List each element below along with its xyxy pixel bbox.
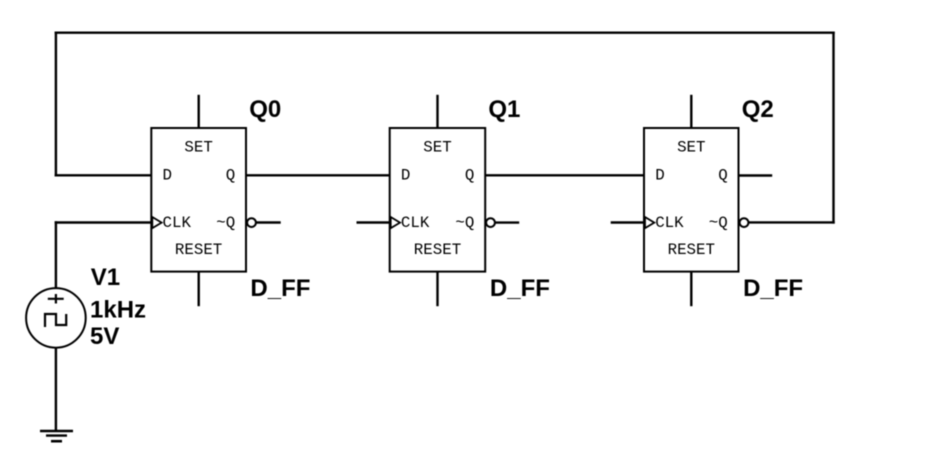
part label D_FF U3 [743, 275, 803, 302]
svg-text:RESET: RESET [175, 241, 222, 259]
wire CLK vertical from V1 [55, 223, 57, 289]
svg-text:D: D [655, 166, 664, 184]
wire SET stub FF3 [690, 96, 692, 128]
ground symbol [40, 431, 73, 441]
svg-text:D_FF: D_FF [250, 275, 310, 302]
pin label SET U1 [184, 139, 212, 157]
pin label RESET U3 [668, 241, 715, 259]
svg-text:D_FF: D_FF [490, 275, 550, 302]
wire feedback right vertical [832, 33, 834, 223]
svg-text:Q0: Q0 [249, 96, 281, 123]
clock triangle U2 CLK pin [391, 217, 400, 228]
clock triangle U3 CLK pin [645, 217, 654, 228]
pin label CLK U3 [655, 214, 684, 232]
wire Q0: FF1 Q to FF2 D [246, 174, 390, 176]
svg-text:SET: SET [423, 139, 451, 157]
svg-text:Q1: Q1 [488, 96, 520, 123]
wire SET stub FF2 [436, 96, 438, 128]
pin label D U3 [655, 166, 664, 184]
svg-text:~Q: ~Q [709, 214, 728, 232]
svg-text:CLK: CLK [401, 214, 430, 232]
label V1 [91, 264, 120, 291]
pin label Q U1 [226, 166, 235, 184]
wire feedback top horizontal [56, 32, 834, 34]
wire Q2 stub from FF3 Q [739, 174, 772, 176]
pin label RESET U1 [175, 241, 222, 259]
node label Q2 [742, 96, 774, 123]
wire RESET stub FF1 [197, 272, 199, 305]
pin label SET U3 [677, 139, 705, 157]
voltage source V1 circle [26, 288, 86, 348]
svg-text:RESET: RESET [414, 241, 461, 259]
svg-text:Q: Q [718, 166, 727, 184]
svg-text:D_FF: D_FF [743, 275, 803, 302]
flip-flop U2 D_FF box [390, 128, 486, 272]
svg-text:D: D [401, 166, 410, 184]
pin label Q U3 [718, 166, 727, 184]
pin label ~Q U1 [216, 214, 235, 232]
wire CLK horizontal to FF1 [56, 221, 151, 223]
pin label ~Q U2 [455, 214, 474, 232]
pin label D U1 [163, 166, 172, 184]
pin label SET U2 [423, 139, 451, 157]
pin label D U2 [401, 166, 410, 184]
pin label RESET U2 [414, 241, 461, 259]
svg-text:RESET: RESET [668, 241, 715, 259]
wire ~Q FF3 to feedback [749, 221, 833, 223]
svg-text:~Q: ~Q [216, 214, 235, 232]
wire V1 to ground [55, 347, 57, 430]
svg-text:Q2: Q2 [742, 96, 774, 123]
node label Q1 [488, 96, 520, 123]
wire RESET stub FF2 [436, 272, 438, 305]
wire stub CLK FF2 [358, 221, 390, 223]
pin label CLK U1 [163, 214, 192, 232]
svg-text:CLK: CLK [655, 214, 684, 232]
svg-text:SET: SET [677, 139, 705, 157]
part label D_FF U1 [250, 275, 310, 302]
wire SET stub FF1 [197, 96, 199, 128]
inversion bubble U3 ~Q [740, 218, 749, 227]
node label Q0 [249, 96, 281, 123]
voltage source V1 plus sign [48, 294, 64, 304]
wire stub ~Q FF2 [495, 221, 518, 223]
svg-text:V1: V1 [91, 264, 120, 291]
svg-text:1kHz: 1kHz [90, 297, 146, 324]
wire D input FF1 [56, 174, 151, 176]
inversion bubble U1 ~Q [247, 218, 256, 227]
svg-text:D: D [163, 166, 172, 184]
wire RESET stub FF3 [690, 272, 692, 305]
part label D_FF U2 [490, 275, 550, 302]
flip-flop U1 D_FF box [151, 128, 246, 272]
wire stub CLK FF3 [612, 221, 644, 223]
label 5V [90, 323, 119, 350]
pin label CLK U2 [401, 214, 430, 232]
pin label ~Q U3 [709, 214, 728, 232]
label 1kHz [90, 297, 146, 324]
wire stub ~Q FF1 [257, 221, 280, 223]
clock triangle U1 CLK pin [152, 217, 161, 228]
voltage source V1 square-wave glyph [45, 314, 66, 327]
svg-text:~Q: ~Q [455, 214, 474, 232]
pin label Q U2 [465, 166, 474, 184]
inversion bubble U2 ~Q [486, 218, 495, 227]
svg-text:SET: SET [184, 139, 212, 157]
flip-flop U3 D_FF box [644, 128, 739, 272]
svg-text:5V: 5V [90, 323, 119, 350]
svg-text:CLK: CLK [163, 214, 192, 232]
wire feedback left vertical [55, 33, 57, 176]
svg-text:Q: Q [465, 166, 474, 184]
wire Q1: FF2 Q to FF3 D [485, 174, 644, 176]
svg-text:Q: Q [226, 166, 235, 184]
